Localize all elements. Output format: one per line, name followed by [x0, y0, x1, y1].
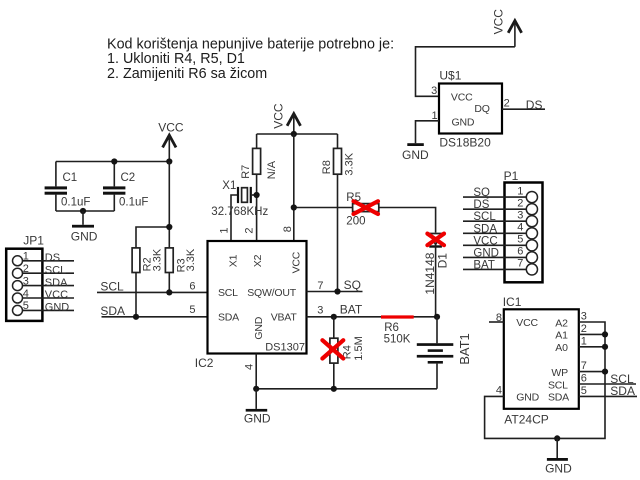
junction pin8/R5 [291, 204, 297, 210]
svg-text:VBAT: VBAT [271, 311, 298, 323]
svg-text:3: 3 [581, 311, 587, 323]
wire: P1 pin3 [463, 220, 526, 222]
red X over R4 [322, 340, 343, 358]
junction VCC rail / C2 [111, 158, 117, 164]
wire: P1 pin1 [463, 196, 526, 198]
wire: IC1 SDA net [579, 395, 637, 397]
svg-text:JP1: JP1 [23, 234, 44, 248]
svg-text:3.3K: 3.3K [344, 152, 356, 175]
wire: R5 to D1 corner [379, 208, 436, 233]
svg-text:X2: X2 [252, 254, 264, 267]
svg-text:SCL: SCL [218, 287, 238, 299]
svg-text:GND: GND [244, 411, 271, 425]
svg-text:GND: GND [71, 229, 98, 243]
wire: P1 pin6 [463, 256, 526, 258]
wire: IC1 pin4 to GND rail [485, 322, 605, 438]
svg-text:7: 7 [317, 280, 323, 292]
wire: P1 pin7 [463, 268, 526, 270]
wire: VCC stem down to R2/R3 [136, 162, 169, 249]
resistor R2 [132, 248, 163, 273]
svg-text:DS: DS [45, 252, 60, 264]
wire: SCL net [97, 291, 208, 293]
junction pin1 tie [602, 344, 608, 350]
wire: IC1 pin1 stub [579, 346, 605, 348]
junction VCC rail / stem [166, 158, 172, 164]
junction BAT/R4 [331, 314, 337, 320]
VCC symbol left [158, 121, 184, 162]
svg-text:2: 2 [581, 323, 587, 335]
svg-text:200: 200 [346, 216, 365, 228]
wire: P1 pin2 [463, 208, 526, 210]
wire: SDA net [102, 316, 208, 318]
svg-text:VCC: VCC [492, 9, 506, 35]
svg-text:P1: P1 [504, 169, 519, 183]
diode D1 [423, 234, 450, 317]
svg-text:4: 4 [517, 222, 523, 234]
svg-text:SQ: SQ [344, 278, 361, 292]
wire: DS18B20 pin1 to GND [416, 121, 440, 143]
note text [107, 36, 394, 81]
svg-text:D1: D1 [435, 253, 449, 269]
svg-text:SQW/OUT: SQW/OUT [247, 287, 297, 299]
VCC symbol top right [492, 9, 522, 47]
battery BAT1 [417, 317, 472, 389]
svg-text:SCL: SCL [473, 211, 496, 223]
svg-text:U$1: U$1 [439, 69, 461, 83]
svg-text:7: 7 [581, 360, 587, 372]
svg-text:1: 1 [517, 185, 523, 197]
svg-text:3: 3 [317, 305, 323, 317]
svg-text:X1: X1 [227, 254, 239, 267]
svg-text:A2: A2 [555, 317, 568, 329]
wire: P1 pin5 [463, 244, 526, 246]
ground under IC2 [244, 389, 271, 426]
svg-text:GND: GND [402, 148, 429, 162]
IC U$1 DS18B20 [439, 69, 502, 150]
svg-text:C1: C1 [63, 172, 78, 184]
junction crystal/R7 [254, 192, 260, 198]
svg-text:7: 7 [517, 258, 523, 270]
svg-text:1: 1 [218, 227, 230, 233]
red X over R5 [354, 201, 379, 214]
ground under DS18B20 [402, 143, 429, 162]
svg-text:GND: GND [253, 316, 265, 339]
svg-text:VCC: VCC [158, 121, 184, 135]
wire: IC1 SCL net [579, 383, 636, 385]
svg-text:BAT: BAT [473, 259, 495, 271]
junction SDA/R2 [133, 314, 139, 320]
svg-text:R7: R7 [240, 165, 252, 179]
wire: SQW/OUT to SQ [307, 291, 363, 293]
svg-text:VCC: VCC [473, 235, 497, 247]
wire: JP1 pin3 [23, 285, 75, 287]
junction R2 branch [166, 224, 172, 230]
svg-text:SDA: SDA [100, 304, 125, 318]
junction pin4/GND [253, 386, 259, 392]
svg-text:32.768KHz: 32.768KHz [211, 206, 268, 218]
svg-text:SCL: SCL [548, 379, 568, 391]
wire: P1 pin4 [463, 232, 526, 234]
svg-text:IC2: IC2 [195, 356, 214, 370]
svg-text:3: 3 [517, 210, 523, 222]
svg-text:DS1307: DS1307 [265, 342, 305, 354]
svg-text:SCL: SCL [100, 280, 124, 294]
wire: VCC to DS18B20 pin3 [416, 47, 515, 97]
svg-text:5: 5 [189, 304, 195, 316]
wire: caps bottom rail [56, 210, 114, 212]
wire: R2 bottom to SDA [135, 273, 137, 317]
svg-text:VCC: VCC [272, 103, 286, 129]
junction BAT/D1 [434, 314, 440, 320]
capacitor C2 [103, 162, 148, 212]
connector P1 [504, 169, 543, 282]
wire: JP1 pin1 [23, 260, 75, 262]
svg-text:AT24CP: AT24CP [504, 412, 548, 426]
wire: JP1 pin4 [23, 297, 75, 299]
svg-text:DQ: DQ [474, 103, 489, 115]
svg-text:IC1: IC1 [503, 295, 522, 309]
svg-text:4: 4 [496, 384, 502, 396]
svg-text:C2: C2 [121, 172, 136, 184]
svg-text:R8: R8 [321, 160, 333, 174]
svg-text:SDA: SDA [45, 277, 68, 289]
svg-text:2: 2 [243, 227, 255, 233]
svg-text:GND: GND [473, 247, 499, 259]
svg-text:1.5M: 1.5M [353, 336, 365, 360]
resistor R4 [330, 317, 365, 389]
svg-text:SDA: SDA [610, 384, 635, 398]
wire: JP1 pin2 [23, 272, 75, 274]
wire: DQ to DS [502, 108, 545, 110]
svg-text:4: 4 [244, 364, 256, 370]
svg-text:Kod korištenja nepunjive bater: Kod korištenja nepunjive baterije potreb… [107, 36, 394, 52]
resistor R5 [346, 192, 379, 228]
svg-text:6: 6 [581, 373, 587, 385]
svg-text:6: 6 [517, 246, 523, 258]
svg-text:6: 6 [189, 281, 195, 293]
svg-text:0.1uF: 0.1uF [61, 197, 90, 209]
svg-text:5: 5 [517, 234, 523, 246]
ground under C1/C2 [71, 211, 98, 243]
svg-text:3.3K: 3.3K [185, 248, 197, 271]
svg-text:X1: X1 [222, 180, 236, 192]
wire: IC1 pin2 stub [579, 333, 605, 335]
junction pin7 tie [602, 369, 608, 375]
VCC symbol middle [272, 103, 301, 134]
svg-text:VCC: VCC [516, 317, 538, 329]
resistor R8 [321, 134, 356, 292]
wire: R5 net from pin8 [294, 207, 353, 209]
junction R8/SQ [334, 288, 340, 294]
capacitor C1 [45, 162, 91, 212]
svg-text:DS18B20: DS18B20 [439, 135, 491, 149]
junction R4 bottom [331, 386, 337, 392]
svg-text:SQ: SQ [473, 187, 490, 199]
wire: VCC top rail [56, 161, 169, 163]
svg-text:N/A: N/A [266, 160, 278, 179]
junction VCC mid [291, 131, 297, 137]
svg-text:A0: A0 [555, 342, 568, 354]
svg-text:GND: GND [452, 116, 475, 128]
wire: R3 bottom to SCL [168, 273, 170, 293]
ground under IC1 [545, 438, 572, 475]
svg-text:2: 2 [504, 98, 510, 110]
svg-text:VCC: VCC [291, 251, 303, 273]
svg-text:5: 5 [581, 385, 587, 397]
svg-text:3.3K: 3.3K [152, 248, 164, 271]
resistor R7 [240, 134, 278, 241]
header JP1 [6, 234, 44, 321]
junction IC1 GND [554, 435, 560, 441]
svg-text:VCC: VCC [45, 289, 68, 301]
resistor R6 labels [384, 322, 411, 346]
svg-text:WP: WP [551, 367, 568, 379]
svg-text:R6: R6 [384, 322, 399, 334]
svg-text:SDA: SDA [218, 311, 239, 323]
svg-text:SCL: SCL [45, 264, 66, 276]
svg-text:510K: 510K [384, 334, 411, 346]
red X over D1 [427, 234, 444, 246]
svg-text:A1: A1 [555, 330, 568, 342]
svg-text:DS: DS [473, 199, 489, 211]
IC2 DS1307 box [195, 241, 307, 370]
IC1 AT24CP box [503, 295, 579, 427]
svg-text:1. Ukloniti R4, R5, D1: 1. Ukloniti R4, R5, D1 [107, 51, 245, 67]
svg-text:VCC: VCC [451, 91, 473, 103]
svg-text:BAT: BAT [340, 303, 363, 317]
svg-text:0.1uF: 0.1uF [119, 197, 148, 209]
wire: IC1 pin8 stub [489, 321, 504, 323]
red wire replacing R6 [381, 315, 414, 318]
svg-text:8: 8 [282, 226, 294, 232]
svg-text:GND: GND [45, 302, 70, 314]
wire: VCC to pin8 DS1307 [293, 134, 295, 241]
wire: VBAT/BAT net [307, 316, 438, 318]
wire: IC1 pin7 stub [579, 371, 605, 373]
svg-text:SDA: SDA [473, 223, 497, 235]
wire: JP1 pin5 [23, 309, 75, 311]
junction SCL/R3 [166, 289, 172, 295]
svg-text:2: 2 [517, 198, 523, 210]
svg-text:2. Zamijeniti R6 sa žicom: 2. Zamijeniti R6 sa žicom [107, 66, 267, 82]
svg-text:1: 1 [581, 335, 587, 347]
svg-text:SDA: SDA [548, 392, 569, 404]
crystal X1 [211, 180, 268, 241]
wire: VCC mid rail R7-R8 [257, 133, 338, 135]
junction pin2 tie [602, 331, 608, 337]
wire: pin4 to bottom rail [256, 354, 437, 389]
svg-text:BAT1: BAT1 [457, 333, 472, 365]
svg-text:3: 3 [431, 85, 437, 97]
svg-text:GND: GND [516, 392, 539, 404]
junction caps bottom [80, 208, 86, 214]
svg-text:GND: GND [545, 461, 572, 475]
resistor R3 [165, 248, 196, 273]
svg-text:DS: DS [526, 98, 543, 112]
